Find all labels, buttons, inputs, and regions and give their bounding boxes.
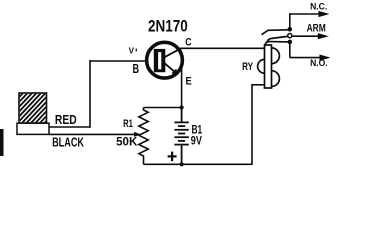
svg-text:E: E — [186, 76, 192, 88]
svg-text:V: V — [129, 46, 135, 56]
svg-text:N.O.: N.O. — [310, 58, 328, 68]
svg-text:ARM: ARM — [307, 22, 326, 34]
svg-text:N.C.: N.C. — [310, 2, 327, 12]
svg-text:RY: RY — [242, 61, 253, 73]
svg-text:B: B — [133, 61, 140, 76]
svg-text:9V: 9V — [191, 133, 203, 147]
svg-text:R1: R1 — [123, 118, 133, 130]
svg-text:BLACK: BLACK — [52, 134, 84, 149]
svg-text:RED: RED — [55, 112, 77, 127]
svg-text:2N170: 2N170 — [148, 18, 188, 36]
svg-text:50K: 50K — [116, 135, 137, 149]
svg-text:C: C — [185, 37, 191, 49]
